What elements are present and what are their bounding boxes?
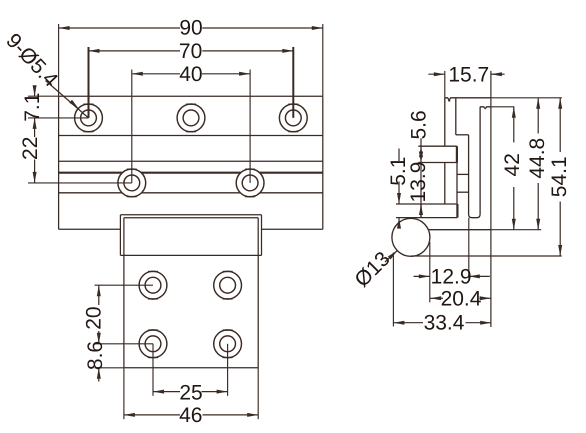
svg-text:7.1: 7.1 bbox=[21, 93, 44, 122]
dimension 54.1 (right overall) bbox=[491, 98, 571, 256]
hole flap-1 (9-Ø5.4 counterbored) bbox=[139, 271, 167, 299]
svg-text:33.4: 33.4 bbox=[424, 311, 465, 334]
svg-text:42: 42 bbox=[501, 153, 524, 176]
dimension 20.4 (bottom) bbox=[430, 287, 491, 310]
hole row2-2 (9-Ø5.4 counterbored) bbox=[236, 169, 264, 197]
svg-text:15.7: 15.7 bbox=[448, 63, 489, 86]
dimension 22 (row2 offset) bbox=[19, 118, 132, 183]
dimension 20 (flap hole rows) bbox=[83, 285, 153, 344]
svg-text:54.1: 54.1 bbox=[548, 156, 571, 197]
profile: inner channel walls bbox=[456, 98, 480, 218]
svg-text:5.1: 5.1 bbox=[387, 157, 410, 186]
profile: left wall bbox=[444, 98, 446, 204]
svg-text:20: 20 bbox=[83, 306, 106, 329]
top view: hinge knuckle/barrel outline bbox=[120, 215, 261, 256]
svg-text:5.6: 5.6 bbox=[407, 110, 430, 139]
svg-text:46: 46 bbox=[179, 404, 202, 427]
dimension 13.9 (tab gap) bbox=[407, 152, 430, 218]
dimension 33.4 (bottom overall) bbox=[393, 253, 491, 335]
top view: plate groove lines bbox=[59, 136, 323, 193]
dimension 42 (right) bbox=[491, 107, 524, 230]
dimension 12.9 (bottom) bbox=[414, 218, 490, 303]
dimension 5.6 (upper tab height) bbox=[407, 110, 430, 162]
svg-text:40: 40 bbox=[179, 63, 202, 86]
hole row1-1 (9-Ø5.4 counterbored) bbox=[75, 104, 103, 132]
dimension 44.8 (right) bbox=[491, 98, 562, 230]
leader label Ø13 bbox=[350, 247, 397, 291]
top view: extrusion plate outline bbox=[59, 96, 323, 229]
hole flap-4 (9-Ø5.4 counterbored) bbox=[214, 330, 242, 358]
hole flap-2 (9-Ø5.4 counterbored) bbox=[214, 271, 242, 299]
hole row1-3 (9-Ø5.4 counterbored) bbox=[279, 104, 307, 132]
hinge barrel circle Ø13 bbox=[392, 218, 430, 256]
svg-text:8.6: 8.6 bbox=[84, 341, 107, 370]
svg-text:90: 90 bbox=[179, 17, 202, 40]
dimension 90 (overall width) bbox=[59, 17, 323, 97]
profile: foot top face bbox=[428, 229, 491, 231]
leader label 9-Ø5.4 bbox=[1, 29, 88, 117]
profile: right wall bbox=[490, 71, 492, 327]
svg-text:25: 25 bbox=[179, 381, 202, 404]
svg-text:13.9: 13.9 bbox=[407, 162, 430, 203]
hole row2-1 (9-Ø5.4 counterbored) bbox=[118, 169, 146, 197]
hole row1-2 (9-Ø5.4 counterbored) bbox=[177, 104, 205, 132]
dimension 8.6 (flap holes to bottom edge) bbox=[84, 341, 124, 382]
top view: hinge flap plate outline bbox=[124, 218, 258, 368]
dimension 70 (hole spacing row1) bbox=[89, 40, 294, 118]
dimension 15.7 (top) bbox=[428, 63, 504, 98]
hole flap-3 (9-Ø5.4 counterbored) bbox=[139, 330, 167, 358]
dimension 40 (hole spacing row2) bbox=[132, 63, 250, 183]
dimension 7.1 (row1 offset from edge) bbox=[21, 85, 89, 122]
profile: upper-right step face bbox=[480, 107, 491, 109]
profile: upper tab (5.6) bbox=[418, 146, 457, 162]
svg-text:22: 22 bbox=[19, 137, 42, 160]
svg-text:12.9: 12.9 bbox=[431, 266, 472, 289]
profile: lower tab bbox=[396, 204, 457, 218]
dimension 46 (flap width) bbox=[124, 368, 258, 427]
profile: foot bottom face bbox=[411, 255, 491, 257]
dimension 5.1 (lower tab to barrel) bbox=[387, 149, 410, 229]
svg-text:70: 70 bbox=[179, 40, 202, 63]
svg-text:44.8: 44.8 bbox=[526, 138, 549, 179]
svg-text:20.4: 20.4 bbox=[441, 287, 482, 310]
profile: top face bbox=[445, 98, 491, 102]
dimension 25 (flap hole spacing) bbox=[153, 344, 228, 405]
